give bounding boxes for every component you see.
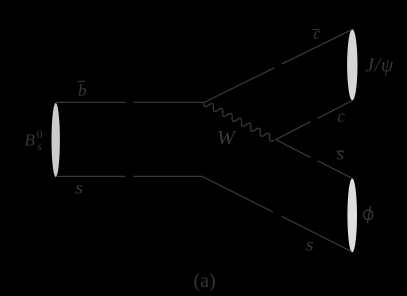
wire: c-bar quark line to J/psi: [204, 29, 352, 102]
boson W wavy line: [204, 103, 274, 142]
wire: b-bar quark line (horizontal, arrow gap at middle): [56, 101, 204, 103]
label phi (drawn): [364, 206, 373, 223]
svg-text:B: B: [25, 130, 36, 149]
svg-text:s: s: [75, 178, 83, 198]
svg-text:s: s: [336, 144, 344, 164]
svg-text:c: c: [314, 24, 321, 43]
meson blob phi: [347, 178, 357, 252]
meson blob B_s^0: [52, 103, 60, 177]
svg-text:b: b: [78, 81, 87, 100]
wire: c quark line to J/psi bottom: [276, 100, 353, 139]
svg-text:W: W: [217, 127, 238, 149]
meson blob J/psi: [347, 29, 357, 100]
svg-text:(a): (a): [194, 270, 216, 292]
wire: s-bar quark line to phi top: [276, 140, 352, 179]
svg-text:s: s: [37, 139, 42, 153]
svg-text:c: c: [337, 106, 344, 126]
svg-text:s: s: [306, 235, 314, 255]
wire: s quark line horizontal segment: [56, 175, 202, 177]
svg-text:J/ψ: J/ψ: [365, 56, 394, 77]
wire: s quark line diagonal segment to phi: [202, 176, 351, 251]
